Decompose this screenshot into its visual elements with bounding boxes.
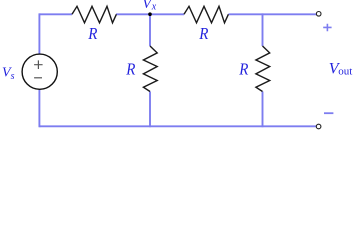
terminal + (top right open circle) xyxy=(316,12,321,17)
svg-text:out: out xyxy=(338,65,352,77)
wire right branch lower xyxy=(262,92,264,128)
svg-text:R: R xyxy=(87,25,97,43)
resistor R2 (top right, horizontal zigzag) xyxy=(184,6,228,23)
resistor R4 (right, vertical zigzag) xyxy=(256,46,270,92)
svg-text:s: s xyxy=(11,71,15,82)
svg-text:R: R xyxy=(125,61,135,79)
svg-text:R: R xyxy=(238,61,248,79)
wire right branch upper xyxy=(262,13,264,46)
wire middle branch lower xyxy=(149,92,151,128)
wire top left: source top corner to R1 xyxy=(39,13,72,15)
svg-text:R: R xyxy=(198,25,208,43)
wire top right: R2 to + terminal xyxy=(228,13,316,15)
voltage source Vs circle xyxy=(22,54,57,89)
plus sign at output xyxy=(323,24,331,31)
wire left vertical (through source) xyxy=(38,13,40,127)
resistor R3 (middle, vertical zigzag) xyxy=(143,46,157,92)
minus sign at output xyxy=(324,112,333,114)
node Vx dot xyxy=(148,12,152,16)
wire bottom xyxy=(39,125,316,127)
wire top middle: R1 to R2 through node Vx xyxy=(116,13,184,15)
source plus sign xyxy=(34,60,43,69)
source minus sign xyxy=(34,77,42,79)
resistor R1 (top left, horizontal zigzag) xyxy=(72,6,116,23)
wire middle branch upper xyxy=(149,13,151,46)
svg-text:x: x xyxy=(151,2,157,13)
terminal - (bottom right open circle) xyxy=(316,124,321,129)
